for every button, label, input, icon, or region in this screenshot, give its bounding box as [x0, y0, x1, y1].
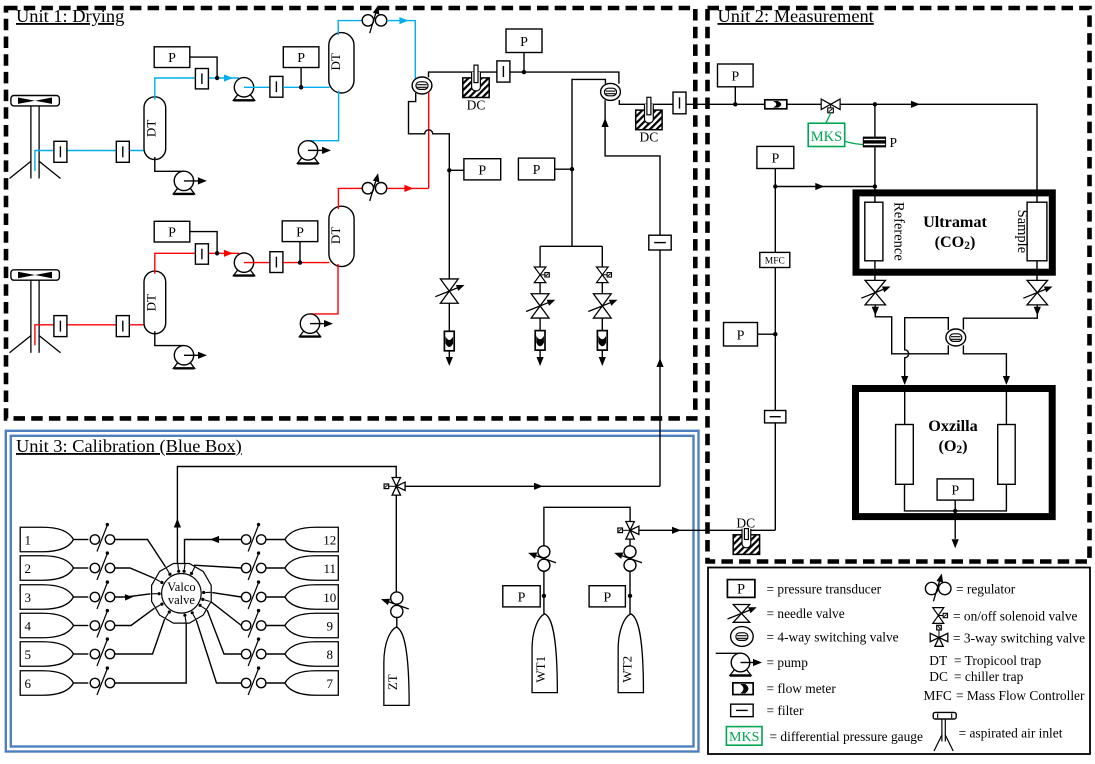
- svg-text:P: P: [520, 35, 528, 50]
- exhaust down arrow: [446, 357, 453, 366]
- Valco valve inner circle: [162, 574, 202, 614]
- svg-text:P: P: [518, 590, 526, 605]
- junction dot at P stub: [570, 167, 574, 171]
- wire tank 4 to regulator: [74, 625, 89, 627]
- flow arrow into Valco from tank 12: [210, 536, 219, 543]
- filter after pump (blue): [270, 76, 283, 97]
- flow arrow on calibration line: [534, 483, 543, 490]
- wire needle valve to flow meter: [539, 318, 541, 331]
- svg-text:P: P: [731, 69, 739, 84]
- wire P to line junction: [190, 232, 217, 254]
- legend MKS symbol: [726, 727, 762, 746]
- svg-text:P: P: [297, 51, 305, 66]
- Sample cell tube: [1027, 202, 1047, 261]
- down arrow into Oxzilla left: [901, 376, 908, 385]
- filter on Unit 3 riser: [649, 235, 671, 250]
- working tank WT2: [618, 614, 643, 693]
- regulator (WT2): [624, 546, 636, 558]
- pressure transducer P (red train 1): [154, 221, 190, 242]
- svg-text:DC: DC: [467, 98, 486, 113]
- exhaust pump (blue train): [297, 158, 318, 164]
- svg-text:DT: DT: [929, 653, 947, 668]
- needle valve below Reference: [865, 280, 886, 292]
- wire P stub down: [734, 87, 736, 105]
- wire MFC branch down: [774, 169, 776, 187]
- Unit 2 dashed border box: [708, 8, 1090, 562]
- wire needle valve to flow meter: [601, 318, 603, 331]
- exhaust pump (red train): [299, 331, 320, 337]
- regulator (tank 6): [90, 678, 99, 687]
- wire DT2 top to regulator (blue): [338, 21, 362, 35]
- svg-text:Unit 3: Calibration (Blue Box): Unit 3: Calibration (Blue Box): [16, 436, 242, 457]
- regulator (tank 12): [241, 535, 250, 544]
- wire tank 3 to regulator: [74, 596, 89, 598]
- flow meter (vent chain A): [535, 331, 545, 351]
- svg-text:WT1: WT1: [533, 656, 548, 683]
- chiller trap DC1: [463, 78, 489, 98]
- wire split left down: [539, 246, 541, 267]
- svg-text:8: 8: [327, 647, 334, 662]
- pressure transducer P (blue train 2): [283, 47, 319, 68]
- junction dot at P stub: [773, 332, 777, 336]
- gas tank 1: [20, 527, 73, 552]
- svg-text:MKS: MKS: [811, 129, 842, 145]
- wire tank 10 to regulator: [267, 596, 285, 598]
- aspirated air inlet (red train): [11, 270, 60, 280]
- Oxzilla left cell tube: [896, 425, 914, 485]
- junction dot Ultramat inlet: [873, 184, 877, 188]
- wire + down arrow below Sample needle valve: [1036, 305, 1038, 308]
- wire regulator 4 to Valco valve: [115, 608, 155, 625]
- Unit 3 blue double border box: [6, 431, 699, 752]
- exhaust pump (blue DT1): [173, 188, 194, 194]
- wire WT1 riser to 3-way WT valve: [544, 507, 630, 614]
- wire red train riser to 4-way valve: [428, 92, 430, 189]
- wire 4-way U2 output to Unit 2: [619, 100, 1037, 202]
- flow meter (vent chain B): [597, 331, 607, 351]
- zero tank ZT: [384, 627, 409, 705]
- junction dot: [215, 251, 219, 255]
- regulator (tank 9): [241, 621, 250, 630]
- filter on red inlet line 1: [54, 316, 67, 337]
- svg-text:6: 6: [24, 676, 31, 691]
- wire regulator 2 to Valco valve: [115, 568, 155, 578]
- wire tank 7 to regulator: [267, 682, 285, 684]
- wire MFC branch arrow to Ultramat junction: [775, 186, 875, 188]
- wire regulator to ZT tank: [396, 618, 398, 629]
- svg-text:= regulator: = regulator: [956, 582, 1016, 597]
- legend aspirated air inlet symbol: [933, 712, 956, 719]
- chiller trap DC2: [636, 110, 662, 130]
- svg-text:DT: DT: [328, 53, 343, 70]
- regulator (WT1): [538, 546, 550, 558]
- regulator (tank 1): [90, 535, 99, 544]
- pressure transducer P (blue train 1): [154, 47, 190, 68]
- wire P stub down: [954, 500, 956, 511]
- wire 4-way valve U1 top-right to measurement line: [429, 72, 619, 84]
- wire tank 5 to regulator: [74, 653, 89, 655]
- wire regulator 6 to Valco valve: [115, 623, 187, 683]
- svg-text:DC: DC: [929, 669, 948, 684]
- svg-text:4: 4: [24, 618, 31, 633]
- flow arrow to unit2: [672, 527, 681, 534]
- junction dot: [733, 102, 737, 106]
- svg-text:(O2): (O2): [938, 437, 967, 456]
- wire WT2 riser: [629, 539, 631, 614]
- svg-text:= aspirated air inlet: = aspirated air inlet: [959, 726, 1063, 741]
- wire Sample outlet: [1036, 261, 1038, 281]
- svg-text:= on/off solenoid valve: = on/off solenoid valve: [953, 609, 1078, 624]
- wire P2r stub down: [299, 242, 301, 263]
- gas tank 7: [285, 671, 338, 696]
- svg-text:11: 11: [324, 561, 337, 576]
- gas tank 11: [285, 556, 338, 581]
- wire tank 1 to regulator: [74, 539, 89, 541]
- needle valve (vent chain A): [531, 294, 549, 306]
- regulator (tank 3): [90, 592, 99, 601]
- svg-text:P: P: [737, 581, 745, 597]
- pump (red train mid): [233, 270, 254, 276]
- svg-text:valve: valve: [168, 593, 196, 607]
- gas tank 3: [20, 585, 73, 610]
- wire 3-way valve down to ZT regulator: [395, 495, 397, 592]
- regulator (tank 8): [241, 649, 250, 658]
- wire into Oxzilla left tube: [904, 392, 906, 425]
- svg-text:P: P: [168, 226, 176, 241]
- MKS differential pressure gauge box: [808, 123, 845, 146]
- flow meter (unit2 inlet): [765, 100, 787, 109]
- wire solenoid to needle valve: [601, 283, 603, 294]
- svg-text:1: 1: [24, 532, 31, 547]
- svg-text:P: P: [889, 135, 897, 150]
- junction dot: [299, 85, 303, 89]
- up flow arrow on Unit3 riser: [656, 358, 663, 367]
- svg-text:Oxzilla: Oxzilla: [928, 417, 977, 435]
- filter after pump (red): [270, 252, 283, 273]
- wire filter to DT2r (red): [283, 262, 330, 264]
- wire P stub + junction: [628, 594, 632, 598]
- working tank WT1: [532, 614, 557, 693]
- svg-text:3: 3: [24, 590, 31, 605]
- regulator (tank 2): [90, 563, 99, 572]
- svg-text:= needle valve: = needle valve: [767, 606, 845, 621]
- pressure transducer P (WT2): [589, 586, 625, 607]
- wire P2 stub down: [300, 68, 302, 88]
- svg-text:P: P: [296, 225, 304, 240]
- wire DT2 red exhaust to pump: [310, 264, 338, 314]
- svg-text:= filter: = filter: [767, 703, 804, 718]
- wire tank 2 to regulator: [74, 567, 89, 569]
- aspirated air inlet (blue train): [11, 96, 60, 106]
- regulator (tank 10): [241, 592, 250, 601]
- wire flow meter to exhaust: [539, 350, 541, 358]
- gas tank 8: [285, 642, 338, 667]
- wire Sample to 4-way valve U3 top-right: [963, 314, 1037, 330]
- Tropicool trap DT2 (blue): [329, 33, 354, 93]
- gas tank 4: [20, 613, 73, 638]
- wire 4-way U2 bottom port to Unit 3 riser: [605, 100, 660, 486]
- filter on MFC branch: [765, 411, 786, 423]
- Reference cell tube: [865, 202, 883, 261]
- wire vent branch split: [540, 245, 602, 247]
- Oxzilla exhaust arrow: [954, 511, 956, 539]
- svg-text:DC: DC: [736, 516, 755, 531]
- regulator (tank 7): [241, 678, 250, 687]
- blue flow arrow: [399, 17, 408, 24]
- wire blue inlet to DT1: [35, 151, 144, 172]
- Ultramat analyzer box: [856, 193, 1052, 272]
- needle valve (vent chain B): [593, 294, 611, 306]
- Oxzilla analyzer box: [856, 389, 1053, 517]
- wire 4-way U3 bottom-right to Oxzilla right: [963, 345, 1006, 376]
- red flow arrow: [404, 185, 413, 192]
- svg-text:WT2: WT2: [619, 656, 634, 683]
- green wire MKS to gauge: [845, 141, 864, 144]
- svg-text:P: P: [478, 163, 486, 178]
- svg-text:= 4-way switching valve: = 4-way switching valve: [767, 630, 899, 645]
- legend 3-way switching valve symbol: [930, 625, 948, 646]
- svg-text:P: P: [737, 328, 745, 343]
- green wire solenoid to MKS: [826, 113, 831, 123]
- wire tank 6 to regulator: [74, 682, 89, 684]
- red flow arrow before pump: [224, 250, 233, 257]
- wire P to line junction: [190, 57, 217, 78]
- svg-text:Valco: Valco: [167, 580, 195, 594]
- wire DT2r top to regulator (red): [338, 188, 362, 209]
- wire tank 12 to regulator: [267, 539, 285, 541]
- svg-text:P: P: [168, 51, 176, 66]
- svg-text:P: P: [603, 590, 611, 605]
- svg-text:= pump: = pump: [767, 655, 809, 670]
- Mass Flow Controller MFC box: [760, 252, 790, 267]
- pump (blue train mid): [233, 95, 254, 101]
- svg-text:MKS: MKS: [729, 730, 759, 745]
- 4-way switching valve U1 (left): [412, 77, 432, 94]
- pressure transducer P (Oxzilla): [937, 479, 973, 500]
- wire DT1 red bottom to pump: [155, 331, 184, 345]
- junction dot: [298, 260, 302, 264]
- svg-text:DT: DT: [143, 120, 158, 137]
- pressure transducer P (unit2 inlet): [718, 64, 754, 87]
- wire pump outlet (red): [244, 262, 270, 264]
- gas tank 2: [20, 556, 73, 581]
- pressure transducer P (vent right): [518, 158, 554, 180]
- pressure transducer P (lower left unit2): [724, 323, 758, 347]
- wire regulator 7 to Valco valve: [196, 620, 241, 683]
- junction dot vent line: [447, 168, 451, 172]
- wire regulator to 4-way valve riser (red): [387, 187, 429, 189]
- svg-text:DC: DC: [640, 130, 659, 145]
- svg-text:9: 9: [327, 618, 334, 633]
- svg-text:= differential pressure gauge: = differential pressure gauge: [770, 729, 923, 744]
- svg-text:5: 5: [24, 647, 31, 662]
- svg-text:Reference: Reference: [891, 202, 907, 261]
- legend filter symbol: [731, 704, 754, 717]
- wire DT1r top to pump inlet (red): [155, 253, 239, 273]
- wire Reference outlet: [874, 261, 876, 281]
- 3-way switching valve (WT): [626, 522, 634, 531]
- regulator (ZT): [391, 592, 403, 604]
- wire 4-way U2 top-left to vent branch: [572, 79, 605, 246]
- junction dot: [215, 76, 219, 80]
- wire tank 8 to regulator: [267, 653, 285, 655]
- exhaust down arrow: [599, 357, 606, 366]
- svg-text:Unit 2: Measurement: Unit 2: Measurement: [718, 6, 874, 26]
- exhaust pump (red DT1): [173, 363, 194, 369]
- wire 3-way valve to Unit1 riser: [405, 485, 660, 487]
- wire regulator 5 to Valco valve: [115, 619, 165, 654]
- needle valve (left vent chain): [440, 279, 458, 291]
- wire Valco outlet to 3-way valve: [177, 467, 396, 564]
- filter on red inlet line 2: [116, 316, 129, 337]
- svg-text:DT: DT: [328, 227, 343, 244]
- junction dot at P stub: [522, 70, 526, 74]
- wire 3-way WT valve to DC trap line: [638, 529, 775, 531]
- svg-text:7: 7: [327, 676, 334, 691]
- wire flow meter to exhaust: [601, 350, 603, 358]
- legend needle valve symbol: [733, 605, 750, 614]
- svg-text:P: P: [533, 163, 541, 178]
- svg-text:MFC: MFC: [924, 688, 952, 703]
- blue flow arrow before pump: [224, 74, 233, 81]
- 4-way switching valve U2 (right): [601, 83, 621, 100]
- wire solenoid to needle valve: [539, 283, 541, 294]
- wire flow meter to exhaust arrow: [448, 351, 450, 358]
- wire DT2 blue exhaust to pump: [308, 91, 339, 141]
- wire junction down to gauge and Ultramat Reference: [874, 104, 876, 202]
- wire MFC branch vertical: [774, 187, 776, 531]
- Valco valve port spokes: [177, 564, 180, 570]
- gas tank 12: [285, 527, 338, 552]
- junction dot sample line: [873, 102, 877, 106]
- wire P stub + junction: [542, 594, 546, 598]
- wire + down arrow below needle valve: [874, 305, 876, 308]
- svg-text:Ultramat: Ultramat: [923, 213, 987, 231]
- svg-text:= chiller trap: = chiller trap: [954, 669, 1024, 684]
- Tropicool trap DT2 (red): [329, 206, 354, 266]
- Tropicool trap DT1 (red): [144, 271, 166, 334]
- svg-text:ZT: ZT: [385, 674, 400, 690]
- filter on blue inlet line 2: [116, 141, 129, 162]
- on/off solenoid valve (unit2 inlet): [821, 99, 830, 110]
- legend pump symbol: [716, 652, 741, 654]
- wire tank 11 to regulator: [267, 567, 285, 569]
- flow arrow on tank 3 line: [125, 594, 133, 600]
- flow meter (left vent chain): [444, 331, 454, 351]
- pressure transducer P (red train 2): [282, 221, 318, 242]
- 3-way switching valve (calibration): [392, 478, 400, 487]
- legend regulator symbol: [925, 582, 937, 594]
- wire P stub: [758, 333, 776, 335]
- 4-way switching valve U3: [946, 329, 966, 346]
- pressure transducer P (above MFC): [757, 146, 794, 168]
- svg-text:12: 12: [323, 532, 336, 547]
- legend on/off solenoid valve symbol: [933, 608, 944, 616]
- wire regulator 11 to Valco valve: [194, 565, 242, 568]
- regulator (tank 5): [90, 649, 99, 658]
- svg-text:= 3-way switching valve: = 3-way switching valve: [953, 631, 1085, 646]
- svg-text:P: P: [771, 151, 779, 166]
- wire filter to DT2 (blue): [283, 86, 330, 88]
- legend 4-way switching valve symbol: [731, 627, 754, 647]
- filter on blue inlet line 1: [54, 141, 67, 162]
- svg-text:Sample: Sample: [1014, 210, 1030, 254]
- filter on measurement line: [497, 61, 510, 82]
- svg-text:= Tropicool trap: = Tropicool trap: [954, 653, 1041, 668]
- chiller trap DC3: [733, 535, 759, 555]
- filter after DT1r (red): [195, 244, 208, 264]
- wire DT1 blue bottom to pump: [155, 157, 184, 171]
- Oxzilla right cell tube: [998, 425, 1016, 485]
- svg-text:MFC: MFC: [765, 256, 785, 266]
- Valco valve dodecagon: [152, 564, 212, 624]
- regulator (red train): [362, 183, 373, 194]
- gas tank 9: [285, 613, 338, 638]
- up flow arrow into 4-way U2: [602, 118, 609, 127]
- on/off solenoid valve (vent chain A): [534, 267, 546, 275]
- differential pressure gauge (P): [863, 137, 885, 147]
- Unit 1 dashed border box: [6, 8, 695, 418]
- wire regulator 10 to Valco valve: [212, 593, 241, 597]
- junction dot: [953, 509, 957, 513]
- svg-text:(CO2): (CO2): [935, 233, 976, 252]
- regulator (tank 11): [241, 563, 250, 572]
- up flow arrow on Valco outlet: [174, 519, 181, 528]
- filter on output line: [673, 92, 686, 114]
- wire regulator 3 to Valco valve: [115, 594, 151, 597]
- wire regulator to 4-way valve (blue): [387, 21, 416, 80]
- wire DT1 top to pump inlet (blue): [155, 78, 239, 100]
- gas tank 6: [20, 671, 73, 696]
- wire red inlet to DT1r: [35, 325, 144, 346]
- wire regulator 12 to Valco valve: [185, 540, 242, 564]
- wire needle valve to flow meter: [448, 303, 450, 331]
- sample line flow arrow: [911, 101, 920, 108]
- wire into Oxzilla right tube: [1005, 392, 1007, 425]
- wire 4-way valve left vent path with hop: [409, 93, 450, 279]
- needle valve below Sample: [1027, 280, 1048, 292]
- exhaust down arrow: [537, 357, 544, 366]
- wire P stub: [449, 169, 464, 171]
- svg-text:DT: DT: [143, 294, 158, 311]
- wire regulator 1 to Valco valve: [115, 540, 166, 567]
- legend border box: [708, 568, 1090, 755]
- wire 4-way U3 top-left to Oxzilla left (with hop): [905, 318, 949, 377]
- filter after DT1 (blue): [195, 69, 208, 89]
- regulator (tank 4): [90, 621, 99, 630]
- wire P stub down: [523, 53, 525, 73]
- svg-text:P: P: [951, 484, 959, 499]
- regulator (blue train): [362, 15, 373, 26]
- wire Oxzilla cells to outlet: [905, 484, 1007, 511]
- gas tank 10: [285, 585, 338, 610]
- legend pressure transducer symbol: [727, 580, 755, 598]
- junction dot MFC branch: [773, 184, 777, 188]
- pressure transducer P (top centre): [506, 29, 542, 53]
- down arrow into Oxzilla right: [1003, 376, 1010, 385]
- svg-text:2: 2: [24, 561, 31, 576]
- wire P stub: [555, 168, 572, 170]
- svg-text:10: 10: [323, 590, 336, 605]
- on/off solenoid valve (vent chain B): [597, 267, 609, 275]
- wire pump outlet (blue): [244, 86, 270, 88]
- wire regulator 8 to Valco valve: [207, 610, 241, 654]
- wire regulator 9 to Valco valve: [211, 602, 241, 626]
- legend flow meter symbol: [733, 683, 753, 695]
- gas tank 5: [20, 642, 73, 667]
- svg-text:= flow meter: = flow meter: [767, 681, 837, 696]
- pressure transducer P (WT1): [503, 586, 540, 607]
